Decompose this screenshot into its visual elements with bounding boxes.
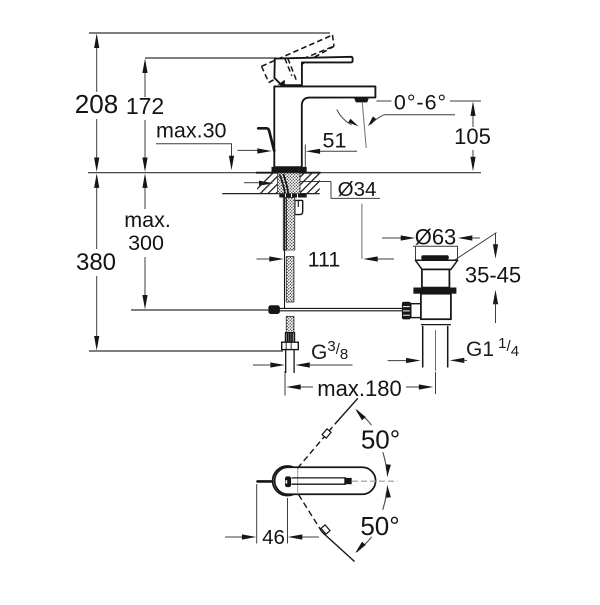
extension line: top of raised handle (208 ref) <box>89 32 330 34</box>
drain upper body <box>422 269 450 287</box>
svg-text:300: 300 <box>128 231 164 255</box>
extension line: 380 bottom level <box>89 350 283 352</box>
faucet handle raised position (dashed) <box>262 35 333 66</box>
flexible supply hose (lower braided section) <box>286 257 294 302</box>
dimension 208 <box>96 36 98 92</box>
break mark upper <box>322 429 331 438</box>
drain body joint <box>421 318 451 320</box>
plan view: lever slot <box>292 477 347 479</box>
svg-text:50°: 50° <box>360 511 399 541</box>
drain plug cap <box>421 255 449 260</box>
dimension 111 <box>361 204 363 259</box>
drain tailpipe <box>422 326 424 368</box>
water stream axis <box>362 103 366 149</box>
pull rod inside hose <box>284 198 286 308</box>
hose hex nut <box>282 342 299 349</box>
extension line: max.300 hose level <box>131 309 268 311</box>
base flange <box>272 167 307 173</box>
pop-up pull rod <box>258 128 274 151</box>
svg-text:Ø34: Ø34 <box>338 178 377 201</box>
drain adjustment knob (knurled) <box>402 302 411 320</box>
drain valve body <box>421 294 451 320</box>
aerator <box>354 97 369 102</box>
dimension max.180 <box>284 371 286 396</box>
dimension G3/8 supply connection <box>253 364 270 366</box>
faucet body and spout <box>274 86 375 167</box>
extension line: top of lever (172 ref) <box>145 57 276 59</box>
pull-rod guide housing <box>295 200 303 214</box>
mounting deck cross-section <box>256 172 321 174</box>
plan view: escutcheon circle <box>273 466 303 496</box>
handle raised-position edges over base (dashed) <box>285 58 292 76</box>
svg-text:208: 208 <box>75 89 118 119</box>
mounting nut <box>279 194 306 198</box>
hose crimp collar <box>285 333 294 343</box>
dimension 380 <box>96 177 98 249</box>
hose break gap <box>287 250 296 256</box>
swivel arc upper 50 <box>357 410 372 425</box>
swivel arc lower 50 <box>383 492 387 510</box>
pop-up linkage horizontal rod <box>280 307 403 309</box>
svg-text:111: 111 <box>308 248 341 272</box>
svg-text:0°-6°: 0°-6° <box>394 91 447 115</box>
dimension 51 <box>304 145 306 169</box>
svg-text:max.30: max.30 <box>156 119 227 143</box>
handle swivel line +50 (dashed) <box>298 424 336 468</box>
dimension 172 <box>144 61 146 97</box>
drain side stub <box>411 304 421 318</box>
dimension 105 <box>377 100 392 102</box>
rod clamp coupling <box>268 305 280 314</box>
svg-text:50°: 50° <box>361 425 400 455</box>
svg-text:51: 51 <box>323 128 347 152</box>
plan view: body chord line <box>297 468 299 494</box>
dimension 35-45 deck thickness at drain <box>453 233 497 262</box>
handle swivel line -50 (dashed) <box>299 495 323 533</box>
svg-text:35-45: 35-45 <box>465 263 521 288</box>
plan view: centerline <box>352 480 398 482</box>
drain flange <box>415 260 457 269</box>
svg-text:380: 380 <box>76 249 116 276</box>
dimension &#216;34 leader <box>300 181 331 183</box>
plan view: pull rod tip <box>258 480 273 483</box>
faucet lever handle (closed) <box>274 57 352 85</box>
drain seal ring (black) <box>413 288 456 294</box>
dimension G1 1/4 drain connection <box>388 360 406 362</box>
extension line: mounting deck surface <box>88 172 481 174</box>
G3/8 connection tube <box>285 350 287 373</box>
dimension max.300 <box>144 177 146 209</box>
svg-text:46: 46 <box>262 526 285 549</box>
svg-text:105: 105 <box>454 124 491 149</box>
svg-text:max.: max. <box>124 208 171 232</box>
svg-text:Ø63: Ø63 <box>415 224 457 249</box>
handle base notch <box>278 80 285 85</box>
svg-text:172: 172 <box>126 93 164 119</box>
plan view: cartridge mark <box>285 476 291 487</box>
plan view: handle outline <box>275 467 376 494</box>
drain axis line <box>435 330 437 371</box>
dimension &#216;63 <box>413 245 458 247</box>
break mark lower <box>321 525 330 534</box>
dimension 46 <box>256 484 258 544</box>
flexible supply hose (upper braided section) <box>283 198 294 251</box>
svg-text:max.180: max.180 <box>317 376 401 401</box>
threaded shank through deck <box>278 173 300 194</box>
